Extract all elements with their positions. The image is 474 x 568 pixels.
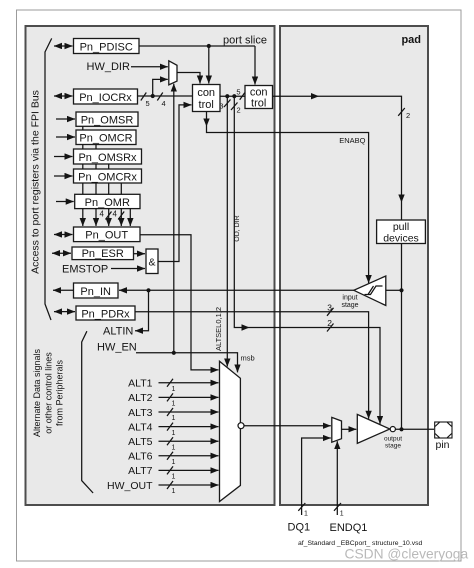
- register Pn_IN: [74, 283, 119, 298]
- svg-text:Alternate Data signals: Alternate Data signals: [32, 348, 42, 437]
- svg-text:2: 2: [237, 106, 241, 115]
- register Pn_PDISC: [74, 39, 140, 54]
- wire Pn_OUT to alt mux: [140, 235, 219, 370]
- bus wire Pn_OMR: [56, 201, 74, 203]
- wire mux output to control1: [177, 73, 200, 84]
- svg-text:pin: pin: [436, 439, 450, 451]
- svg-text:1: 1: [172, 444, 176, 451]
- bus wire Pn_OMSRx: [54, 156, 73, 158]
- svg-text:pad: pad: [401, 34, 421, 46]
- svg-text:Pn_OMSRx: Pn_OMSRx: [78, 152, 137, 164]
- bus wire Pn_OMCRx: [54, 175, 73, 177]
- svg-text:Access to port registers via t: Access to port registers via the FPI Bus: [30, 90, 42, 274]
- wire HW_DIR to mux: [131, 66, 168, 68]
- svg-text:&: &: [148, 257, 155, 269]
- ALT5 input: [128, 436, 218, 451]
- ALT7 input: [128, 465, 218, 480]
- register Pn_IOCRx: [74, 89, 138, 104]
- svg-text:3: 3: [219, 102, 223, 111]
- svg-text:or other control lines: or other control lines: [43, 352, 53, 434]
- control U1: [193, 85, 221, 112]
- wire EMSTOP to and gate: [111, 268, 145, 270]
- svg-text:ALTSEL0,1,2: ALTSEL0,1,2: [214, 307, 223, 351]
- svg-text:Pn_IN: Pn_IN: [80, 286, 111, 298]
- alt mux U4: [220, 361, 241, 501]
- svg-text:Pn_OUT: Pn_OUT: [85, 230, 128, 242]
- pad panel: [280, 26, 428, 505]
- svg-text:1: 1: [172, 415, 176, 422]
- svg-text:devices: devices: [383, 233, 419, 245]
- svg-text:1: 1: [172, 474, 176, 481]
- wire pull devices to pin line: [399, 244, 403, 432]
- wire ENABQ control1 to input stage: [203, 112, 368, 284]
- svg-text:Pn_ESR: Pn_ESR: [82, 248, 124, 260]
- svg-text:5: 5: [236, 88, 240, 97]
- wire Pn_PDRx to output stage: [135, 303, 369, 419]
- svg-text:1: 1: [172, 401, 176, 408]
- output mux U5: [332, 417, 342, 442]
- wire control2 to pull devices: [273, 93, 411, 220]
- svg-text:ALT2: ALT2: [128, 392, 152, 404]
- svg-text:trol: trol: [199, 99, 214, 111]
- pull devices box: [377, 220, 426, 245]
- bus wire Pn_OUT: [54, 234, 73, 236]
- svg-text:Pn_OMR: Pn_OMR: [85, 197, 130, 209]
- wire input stage to Pn_IN: [119, 288, 354, 292]
- bus wire Pn_IN: [53, 289, 74, 291]
- svg-text:Pn_OMCRx: Pn_OMCRx: [78, 171, 137, 183]
- svg-text:Pn_PDRx: Pn_PDRx: [81, 308, 130, 320]
- wire PDISC to controls: [140, 44, 256, 85]
- wire ENDQ1: [334, 441, 344, 517]
- svg-text:4: 4: [100, 210, 105, 219]
- input stage U3: [354, 276, 386, 306]
- wire alt mux to output mux: [244, 425, 331, 427]
- wires OMR to Pn_OUT: [83, 209, 131, 226]
- svg-text:Pn_PDISC: Pn_PDISC: [80, 41, 133, 53]
- register Pn_OMR: [75, 194, 140, 209]
- svg-text:ENABQ: ENABQ: [339, 136, 365, 145]
- FPI bus bracket: [45, 38, 52, 320]
- svg-text:input: input: [342, 295, 357, 302]
- wire IOCRx to control1: [138, 93, 193, 109]
- register Pn_PDRx: [76, 306, 135, 320]
- register Pn_OMCRx: [74, 169, 142, 183]
- svg-text:4: 4: [113, 210, 118, 219]
- svg-text:trol: trol: [251, 97, 266, 109]
- bus wire Pn_ESR: [52, 252, 71, 254]
- ALT4 input: [128, 421, 218, 436]
- register Pn_ESR: [72, 247, 134, 260]
- svg-text:Pn_OMSR: Pn_OMSR: [81, 115, 134, 127]
- svg-text:4: 4: [162, 99, 166, 108]
- wire OD DIR to output stage: [231, 96, 380, 424]
- svg-text:con: con: [197, 87, 215, 99]
- svg-text:HW_DIR: HW_DIR: [87, 61, 130, 73]
- svg-text:ALT1: ALT1: [128, 378, 152, 390]
- wire control1 to control2: [220, 88, 245, 100]
- svg-text:DQ1: DQ1: [288, 522, 311, 534]
- svg-text:1: 1: [172, 430, 176, 437]
- wire HW_EN to HW_DIR mux select: [173, 84, 175, 353]
- alt mux output node: [238, 423, 244, 429]
- svg-text:Pn_OMCR: Pn_OMCR: [79, 133, 132, 145]
- pin symbol: [435, 422, 452, 438]
- peripherals rotated label: [32, 348, 65, 437]
- register Pn_OMSR: [76, 112, 138, 127]
- svg-text:stage: stage: [341, 302, 358, 309]
- svg-text:3: 3: [327, 303, 332, 313]
- wire output stage to pin: [396, 428, 435, 430]
- ALT3 input: [128, 407, 218, 422]
- svg-text:ALTIN: ALTIN: [103, 326, 133, 338]
- svg-text:stage: stage: [385, 443, 401, 450]
- svg-text:from Peripherals: from Peripherals: [55, 359, 65, 426]
- svg-text:HW_EN: HW_EN: [97, 342, 137, 354]
- wire DQ1: [298, 438, 331, 518]
- svg-text:1: 1: [172, 488, 176, 495]
- wire IOCRx branch to mux input: [153, 79, 168, 96]
- svg-text:ALT7: ALT7: [128, 465, 152, 477]
- wires OMSR-OMCR chain: [83, 126, 122, 194]
- svg-text:output: output: [384, 436, 402, 443]
- svg-text:2: 2: [406, 111, 410, 120]
- svg-text:pull: pull: [393, 221, 409, 233]
- wire output mux to output stage: [342, 428, 357, 430]
- mux HW_DIR: [169, 61, 177, 85]
- bus wire Pn_PDRx: [54, 311, 75, 313]
- port slice panel: [26, 26, 275, 505]
- svg-text:1: 1: [304, 511, 308, 518]
- register Pn_OUT: [74, 227, 141, 242]
- HW_OUT input: [107, 480, 219, 495]
- svg-text:Pn_IOCRx: Pn_IOCRx: [79, 92, 132, 104]
- bus wire Pn_OMCR: [56, 136, 75, 138]
- svg-text:EMSTOP: EMSTOP: [62, 263, 108, 275]
- peripherals bracket: [82, 331, 93, 493]
- svg-text:ALT5: ALT5: [128, 436, 152, 448]
- svg-text:ENDQ1: ENDQ1: [330, 522, 368, 534]
- ALT2 input: [128, 392, 218, 407]
- wire ALTSEL to alt mux: [219, 96, 230, 366]
- svg-text:ALT6: ALT6: [128, 451, 152, 463]
- bus wire Pn_IOCRx: [54, 95, 73, 97]
- ALT6 input: [128, 451, 218, 466]
- and gate: [146, 249, 158, 274]
- bus wire Pn_PDISC: [54, 45, 73, 47]
- svg-text:1: 1: [172, 459, 176, 466]
- svg-text:2: 2: [327, 318, 332, 328]
- wire ALTIN branch: [135, 290, 149, 330]
- wire Pn_ESR to and gate: [134, 253, 146, 255]
- wire HW_EN msb to alt mux: [136, 351, 238, 373]
- svg-text:5: 5: [146, 99, 150, 108]
- svg-text:msb: msb: [241, 354, 255, 363]
- svg-text:ALT3: ALT3: [128, 407, 152, 419]
- bus wire Pn_OMSR: [56, 118, 75, 120]
- svg-text:1: 1: [172, 386, 176, 393]
- svg-text:HW_OUT: HW_OUT: [107, 480, 153, 492]
- output stage U6: [357, 414, 395, 443]
- register Pn_OMCR: [76, 130, 136, 145]
- svg-text:OD, DIR: OD, DIR: [234, 215, 241, 241]
- register Pn_OMSRx: [74, 149, 142, 164]
- wire and gate to control1: [158, 105, 192, 262]
- wire pad to input stage: [386, 289, 402, 291]
- svg-text:port slice: port slice: [223, 35, 267, 47]
- svg-text:1: 1: [340, 511, 344, 518]
- svg-text:ALT4: ALT4: [128, 421, 152, 433]
- svg-text:CSDN @cleveryoga: CSDN @cleveryoga: [345, 547, 469, 562]
- control U2: [245, 86, 273, 110]
- ALT1 input: [128, 378, 218, 393]
